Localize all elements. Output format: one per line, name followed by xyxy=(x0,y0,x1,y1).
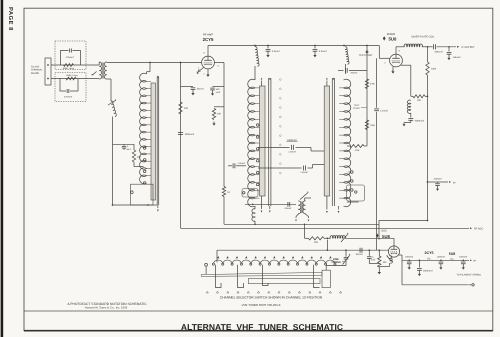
switch index post xyxy=(205,263,208,274)
svg-text:1000mmf: 1000mmf xyxy=(185,133,195,136)
tube V2 pin labels xyxy=(384,50,400,73)
transformer T1 secondary xyxy=(104,62,106,79)
antenna coil asm1 bottom box xyxy=(131,184,154,205)
mixer coil asm3 winding xyxy=(344,79,351,207)
osc coil adjust arrow xyxy=(341,233,348,242)
test point stub xyxy=(359,45,373,58)
switch contact circles xyxy=(212,263,336,265)
svg-text:(Λ): (Λ) xyxy=(450,258,454,261)
top rail wire xyxy=(208,45,379,47)
switch shaft rect xyxy=(248,279,320,284)
svg-text:GIMMICK: GIMMICK xyxy=(287,139,298,142)
capacitor 470mmf lower xyxy=(60,79,78,99)
svg-text:15K: 15K xyxy=(184,107,189,110)
label mixer 5U8 xyxy=(383,36,397,41)
test point vertical wire xyxy=(366,51,368,146)
resistor 1K xyxy=(222,187,230,225)
dashed box upper matching network xyxy=(55,41,86,70)
svg-text:1K: 1K xyxy=(227,191,230,194)
svg-text:mmf: mmf xyxy=(216,91,221,94)
label to filament string xyxy=(457,273,482,276)
svg-text:1.5mmf: 1.5mmf xyxy=(288,151,296,154)
capacitor 82mmf xyxy=(285,202,292,210)
switch rotor bar xyxy=(201,272,322,276)
svg-text:mmf: mmf xyxy=(126,148,131,151)
svg-text:3.3mmf: 3.3mmf xyxy=(319,50,327,53)
antenna coil asm1 contacts xyxy=(143,147,146,185)
svg-text:680K 1meg: 680K 1meg xyxy=(63,67,75,70)
mixer input transformer adjust xyxy=(300,191,308,199)
transformer T1 core xyxy=(102,63,103,79)
rf coil asm2 winding xyxy=(248,79,255,207)
capacitor gimmick 1.5mmf upper xyxy=(258,145,326,154)
svg-text:ALTERNATE VHF TUNER SCHEMAT: ALTERNATE VHF TUNER SCHEMATIC xyxy=(181,322,343,332)
wire rail to mixer grid xyxy=(379,46,390,59)
wire primary top xyxy=(98,62,99,65)
b plus corner xyxy=(379,220,428,240)
svg-text:VHF TUNER PART #95-250-8: VHF TUNER PART #95-250-8 xyxy=(242,303,281,307)
svg-text:5U8: 5U8 xyxy=(389,37,397,42)
rf coil asm2 slug rect xyxy=(260,86,265,196)
capacitor 1.2mmf line xyxy=(374,58,388,250)
svg-text:5U8: 5U8 xyxy=(449,252,456,256)
capacitor 5mmf xyxy=(113,144,135,151)
label to ant terminal board xyxy=(31,66,43,75)
wire primary bottom xyxy=(98,78,99,80)
capacitor 100mmf b plus xyxy=(427,178,442,191)
capacitor 100mmf fil 1 xyxy=(405,255,413,269)
svg-text:680K 1meg: 680K 1meg xyxy=(66,74,78,77)
svg-text:TEST POINT: TEST POINT xyxy=(359,54,373,57)
rf coil asm2 bottom coil xyxy=(252,206,256,225)
tube V1 2CY5 xyxy=(202,56,215,69)
capacitor 5mmf osc xyxy=(367,250,379,263)
label 5U8 filament xyxy=(449,252,456,256)
svg-text:mmf: mmf xyxy=(371,259,376,262)
mixer input transformer secondary xyxy=(303,201,306,214)
svg-text:IF OUTPUT: IF OUTPUT xyxy=(462,46,476,49)
svg-text:470mmf: 470mmf xyxy=(66,56,74,59)
rf coil asm2 arrows top xyxy=(261,78,271,86)
b plus arrow xyxy=(438,181,457,184)
capacitor 150mmf xyxy=(447,47,461,60)
switch link hook 4 xyxy=(314,265,320,288)
switch top feed wire xyxy=(216,250,218,262)
wire choke to coil asm2 xyxy=(254,66,256,80)
svg-text:POINT: POINT xyxy=(353,107,360,110)
mixer input transformer primary xyxy=(298,201,301,214)
resistor 10K mixer xyxy=(411,95,429,102)
wire L1 down to bottom xyxy=(112,117,114,206)
label RF AMP xyxy=(203,34,213,37)
page edge black strip xyxy=(1,0,4,337)
resistor 10K osc xyxy=(305,237,328,244)
svg-text:1.2mmf: 1.2mmf xyxy=(380,109,388,112)
label fine tuning xyxy=(331,258,344,264)
mixer coil asm3 arrows top xyxy=(326,78,334,86)
svg-text:10mmf: 10mmf xyxy=(356,253,363,256)
svg-text:3.3mmf: 3.3mmf xyxy=(272,50,280,53)
fine tuning trimmer xyxy=(326,250,350,270)
switch link hook 2 xyxy=(238,265,244,288)
title ALTERNATE VHF TUNER SCHEMATIC xyxy=(181,322,343,332)
label 2CY5 xyxy=(203,37,214,42)
svg-text:TO FILAMENT STRING: TO FILAMENT STRING xyxy=(457,273,482,276)
capacitor 1000mmf xyxy=(178,133,195,136)
wire ant lower xyxy=(51,78,98,80)
resistor 22K xyxy=(132,144,143,166)
capacitor 100mmf fil 3 xyxy=(459,255,467,269)
svg-text:100mmf: 100mmf xyxy=(437,255,445,258)
svg-text:10K: 10K xyxy=(383,261,388,264)
svg-text:BOARD: BOARD xyxy=(31,72,40,75)
osc heater wire xyxy=(399,255,402,260)
label OSC xyxy=(381,229,387,232)
svg-text:OSC: OSC xyxy=(381,229,387,232)
osc cathode coil xyxy=(379,255,392,267)
filament return wire xyxy=(402,260,474,286)
label gimmick xyxy=(287,139,298,142)
svg-text:TEST: TEST xyxy=(354,104,360,107)
mixer input transformer top stub xyxy=(305,198,311,201)
wire ant upper xyxy=(51,64,98,66)
mixer coil asm3 ticks xyxy=(339,88,343,198)
svg-text:10K: 10K xyxy=(314,241,319,244)
wire secondary bottom xyxy=(107,79,111,102)
svg-text:10K: 10K xyxy=(417,99,422,102)
mixer coil asm3 contacts xyxy=(348,171,353,192)
mixer coil asm3 bottom form xyxy=(347,185,365,202)
svg-text:TO ANT.: TO ANT. xyxy=(31,66,40,69)
antenna coil asm1 slug rect xyxy=(151,83,155,200)
switch rotor marks xyxy=(217,256,331,258)
tube V2 mixer 5U8 xyxy=(390,54,403,67)
mixer input transformer gnd arrows xyxy=(295,214,309,222)
heater symbol 1 xyxy=(427,258,431,261)
osc plate coil xyxy=(327,236,394,246)
tube V1 plate pin6 wire xyxy=(214,63,224,187)
heater symbol 2 xyxy=(450,258,454,261)
if output arrow xyxy=(457,46,475,49)
antenna coil asm1 slug lines xyxy=(157,77,159,206)
photofact credit line 2 xyxy=(85,306,128,310)
svg-text:TERMINAL: TERMINAL xyxy=(31,69,43,72)
resistor 150K xyxy=(365,120,375,130)
svg-text:100k: 100k xyxy=(431,68,437,71)
resistor 470K upper xyxy=(365,79,375,89)
antenna coil asm1 ticks xyxy=(147,81,152,175)
caption tuner part number xyxy=(242,303,281,307)
svg-text:100mmf: 100mmf xyxy=(405,255,413,258)
dashed box lower matching network xyxy=(55,73,86,102)
svg-text:470mmf: 470mmf xyxy=(64,96,72,99)
capacitor 30mmf xyxy=(338,68,367,75)
mixer plate coil xyxy=(396,44,433,48)
capacitor gimmick 1.5mmf lower xyxy=(258,165,326,174)
antenna coil asm1 arrow top xyxy=(157,75,159,77)
resistor 100K xyxy=(426,47,437,75)
b plus feed wire xyxy=(427,75,429,221)
label rf agc xyxy=(474,228,484,231)
antenna coil asm1 bottom wire xyxy=(112,204,157,206)
label osc 5U8 xyxy=(376,233,391,238)
svg-text:82mmf: 82mmf xyxy=(285,207,292,210)
svg-text:Howard W. Sams & Co., Inc. 195: Howard W. Sams & Co., Inc. 1958 xyxy=(85,306,128,310)
rail coil return xyxy=(224,223,379,225)
rail rf agc xyxy=(181,227,473,229)
resistor 10K screen xyxy=(212,107,224,126)
tube V2 plate wire xyxy=(395,47,397,54)
filament wire xyxy=(402,259,469,261)
osc grid coupling vertical xyxy=(326,240,328,251)
rf coil asm2 bottom tap wire xyxy=(245,203,296,205)
svg-text:5U8: 5U8 xyxy=(382,234,390,239)
capacitor 10mmf osc xyxy=(356,248,363,256)
choke L2 xyxy=(255,47,259,66)
svg-text:30mmf: 30mmf xyxy=(351,72,358,75)
filament arrow b plus xyxy=(470,259,477,262)
tube V1 cathode ground xyxy=(206,69,209,77)
antenna coil asm1 winding xyxy=(140,73,147,184)
capacitor 3.3mmf second xyxy=(313,46,327,58)
svg-text:1.0mmf: 1.0mmf xyxy=(238,162,246,165)
tube V2 cathode chain xyxy=(401,65,411,96)
capacitor 1000mmf fil xyxy=(417,260,433,276)
svg-text:2CY5: 2CY5 xyxy=(203,37,214,42)
svg-text:150K: 150K xyxy=(370,124,376,127)
switch link hook 1 xyxy=(216,265,222,288)
svg-text:2CY5: 2CY5 xyxy=(425,251,434,255)
antenna coil asm1 arrow bottom xyxy=(157,205,159,212)
svg-text:22K: 22K xyxy=(137,156,142,159)
capacitor 3.3mmf first xyxy=(266,46,280,58)
tube V1 plate wire xyxy=(207,46,209,57)
wafer index marks xyxy=(279,78,281,174)
svg-text:100mmf: 100mmf xyxy=(459,255,467,258)
capacitor 100mmf if xyxy=(434,44,457,53)
wire choke to coil asm3 xyxy=(345,64,347,74)
switch wafer scallops xyxy=(213,260,335,263)
resistor 10K osc grid xyxy=(378,250,387,274)
antenna terminal board xyxy=(45,58,51,85)
svg-text:1000mmf: 1000mmf xyxy=(415,120,425,123)
mixer coil asm3 arrows bottom xyxy=(326,196,339,213)
transformer T1 primary xyxy=(99,62,101,79)
mixer cathode coil xyxy=(408,100,411,113)
tube V2 cathode ground xyxy=(391,67,394,74)
capacitor 470mmf upper xyxy=(61,49,81,66)
svg-text:RF AGC: RF AGC xyxy=(474,228,484,231)
svg-text:(Λ): (Λ) xyxy=(427,258,431,261)
mixer coil asm3 slug rect xyxy=(324,86,329,196)
coil L1 antenna xyxy=(108,99,116,117)
svg-text:150mmf: 150mmf xyxy=(453,56,461,59)
svg-text:PAGE 8: PAGE 8 xyxy=(7,7,14,31)
label 2CY5 filament xyxy=(425,251,434,255)
svg-text:1000mmf: 1000mmf xyxy=(423,270,433,273)
capacitor 1000mmf mixer xyxy=(403,113,425,126)
rf coil asm2 contacts xyxy=(256,124,259,186)
capacitor 600mmf screen xyxy=(210,87,224,96)
tube V1 pin3 bypass xyxy=(197,68,204,75)
svg-text:MIXER PLATE COIL: MIXER PLATE COIL xyxy=(412,36,435,39)
resistor 15K xyxy=(179,102,189,114)
resistor 470K lower xyxy=(347,145,367,152)
photofact credit line 1 xyxy=(67,302,147,306)
mixer coil asm3 slug lines xyxy=(332,78,334,206)
label mixer plate coil xyxy=(412,36,435,39)
capacitor 1.0mmf xyxy=(228,162,246,168)
osc grid wire xyxy=(217,249,388,251)
svg-text:100mmf: 100mmf xyxy=(434,51,443,54)
resistor 680K lower xyxy=(66,74,78,80)
bottom page rule xyxy=(24,330,493,332)
svg-text:CHANNEL SELECTOR SWITCH SHOWN: CHANNEL SELECTOR SWITCH SHOWN IN CHANNEL… xyxy=(220,295,323,299)
label test point 2 xyxy=(353,104,367,110)
switch hub rect xyxy=(322,270,330,287)
rf coil asm2 ticks xyxy=(255,88,259,198)
rf coil asm2 bottom form xyxy=(242,189,258,198)
osc feed vertical xyxy=(304,223,306,238)
caption channel selector xyxy=(220,295,323,299)
resistor 680K upper xyxy=(63,64,75,70)
choke L3 xyxy=(345,47,349,64)
PAGE 8 vertical label xyxy=(7,7,14,31)
capacitor 10mmf agc bypass xyxy=(181,87,204,96)
svg-text:100mmf: 100mmf xyxy=(434,178,442,181)
tube V1 grid return wire xyxy=(180,63,182,229)
wire secondary top to grid xyxy=(107,62,202,64)
tube V1 pin labels xyxy=(196,51,219,75)
switch link hook 3 xyxy=(263,265,269,286)
antenna coil asm1 feed xyxy=(147,63,151,75)
transformer T1 adjust arrow xyxy=(91,72,97,76)
switch bottom marks xyxy=(206,291,341,293)
svg-text:1.5mmf: 1.5mmf xyxy=(300,171,308,174)
label MIXER xyxy=(387,33,396,36)
tube V3 osc 5U8 xyxy=(388,246,399,257)
rf coil asm2 arrows bottom xyxy=(261,196,271,213)
rf coil asm2 slug lines xyxy=(269,78,271,206)
svg-text:MIXER: MIXER xyxy=(387,33,396,36)
capacitor 100mmf fil 2 xyxy=(437,255,445,269)
mixer input transformer core xyxy=(301,202,302,214)
svg-text:10K: 10K xyxy=(217,113,222,116)
svg-text:10mmf: 10mmf xyxy=(197,88,204,91)
